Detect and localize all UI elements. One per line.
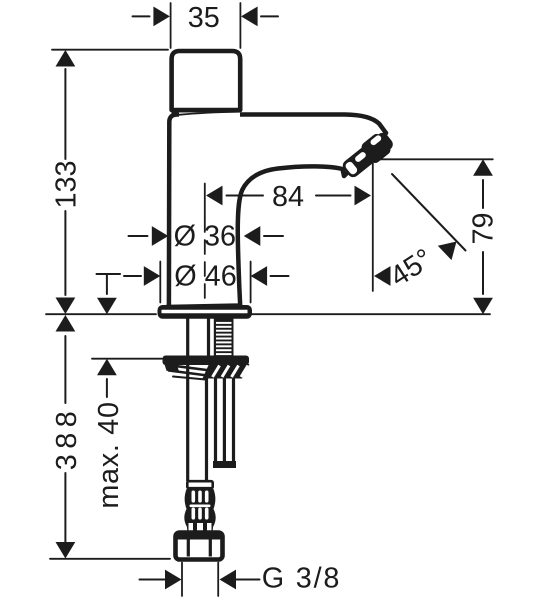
- svg-text:79: 79: [468, 212, 500, 244]
- svg-text:max. 40: max. 40: [93, 401, 125, 508]
- svg-text:45°: 45°: [385, 243, 439, 294]
- svg-text:133: 133: [51, 160, 83, 208]
- svg-text:G 3/8: G 3/8: [262, 563, 341, 595]
- svg-text:Ø 36: Ø 36: [174, 220, 236, 252]
- svg-text:35: 35: [188, 2, 220, 34]
- svg-text:388: 388: [51, 406, 83, 471]
- svg-text:Ø 46: Ø 46: [174, 261, 236, 293]
- svg-text:84: 84: [272, 181, 304, 213]
